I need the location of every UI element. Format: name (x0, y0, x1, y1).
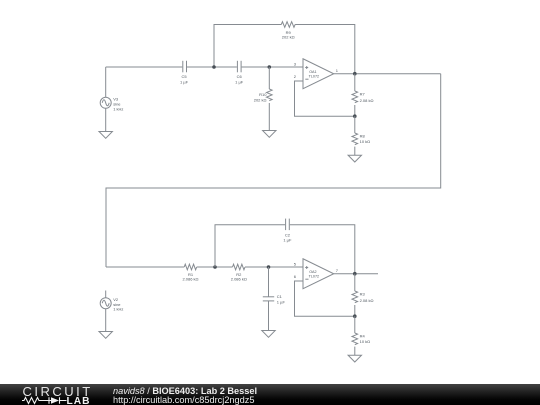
voltage source V2 (100, 298, 111, 309)
wire OA1 inverting input feedback (295, 81, 355, 116)
wire junction to R8 (354, 116, 356, 133)
wire input top from V3 to C5 (106, 66, 183, 68)
wire V3 top stub (105, 67, 107, 97)
label V2 (113, 297, 123, 312)
svg-text:2: 2 (294, 74, 297, 79)
wire node A up (214, 25, 281, 68)
ground below V3 (99, 132, 112, 139)
svg-text:2.08 kΩ: 2.08 kΩ (360, 298, 374, 303)
wire node B down to R10 (268, 67, 270, 89)
svg-text:1 kHz: 1 kHz (113, 307, 123, 312)
wire output node to R7 (354, 74, 356, 91)
label C1 value (277, 294, 286, 304)
label R9 value (282, 30, 295, 40)
wire R10 to ground (268, 103, 270, 131)
label R2 value (231, 272, 247, 281)
CircuitLab logo (0, 384, 100, 405)
wire R8 to ground (354, 147, 356, 156)
svg-text:TL072: TL072 (309, 275, 319, 279)
ground below C1 (262, 331, 275, 338)
ground below R8 (348, 155, 361, 162)
label R1 value (182, 272, 198, 281)
ground below V2 (99, 332, 112, 339)
wire node D down to C1 (268, 267, 270, 297)
label C5 value (180, 74, 189, 84)
wire R1 to R2 (197, 266, 233, 268)
junction node B (268, 65, 272, 69)
label R3 value (360, 292, 374, 303)
junction output node stage1 (353, 72, 357, 76)
svg-text:LAB: LAB (67, 396, 91, 405)
wire V3 to ground (105, 108, 107, 131)
wire R7 to junction (354, 105, 356, 116)
svg-text:1 kHz: 1 kHz (113, 106, 123, 111)
wire C6 to op-amp input (242, 66, 303, 68)
wire stage1 output to stage2 input (106, 74, 441, 267)
wire C5 to C6 (187, 66, 237, 68)
label OA1 name (309, 70, 319, 79)
wire R3 to junction (354, 305, 356, 316)
junction node D (267, 265, 271, 269)
label V3 (113, 97, 123, 112)
wire OA1 output (334, 73, 441, 75)
resistor R4 (352, 333, 358, 345)
svg-text:1 µF: 1 µF (277, 299, 286, 304)
junction feedback node stage2 (353, 314, 357, 318)
wire node C up to C2 (215, 225, 285, 267)
junction output node stage2 (353, 272, 357, 276)
svg-text:2.086 kΩ: 2.086 kΩ (182, 276, 198, 281)
junction feedback node stage1 (353, 114, 357, 118)
footer bar (0, 384, 540, 405)
svg-text:1: 1 (336, 68, 339, 73)
resistor R1 (184, 264, 196, 270)
resistor R2 (233, 264, 245, 270)
svg-text:R8: R8 (360, 134, 366, 139)
wire OA2 output (334, 273, 378, 275)
svg-text:2.08 kΩ: 2.08 kΩ (360, 98, 374, 103)
wire stage2 input to R1 (106, 266, 184, 268)
wire R2 to op-amp 2 input (245, 266, 303, 268)
svg-text:OA1: OA1 (309, 70, 316, 74)
wire V2 to ground (105, 309, 107, 332)
voltage source V3 (100, 97, 111, 108)
svg-text:1 µF: 1 µF (235, 79, 244, 84)
capacitor C6 (237, 61, 241, 73)
svg-text:3: 3 (294, 61, 297, 66)
wire R4 to ground (354, 347, 356, 356)
label OA2 name (309, 270, 319, 279)
ground below R4 (348, 355, 361, 362)
wire C1 to ground (268, 301, 270, 331)
resistor R7 (352, 91, 358, 103)
svg-text:2.086 kΩ: 2.086 kΩ (231, 276, 247, 281)
svg-text:202 kΩ: 202 kΩ (282, 34, 295, 39)
svg-text:7: 7 (336, 268, 339, 273)
op-amp OA2 (303, 259, 334, 289)
wire junction to R4 (354, 316, 356, 333)
svg-text:10 kΩ: 10 kΩ (360, 339, 371, 344)
wire C2 to output node stage2 (290, 225, 355, 274)
capacitor C5 (183, 61, 187, 73)
label C2 value (283, 233, 292, 243)
label R4 value (360, 334, 371, 345)
label R8 value (360, 134, 371, 145)
svg-text:6: 6 (294, 274, 297, 279)
svg-text:202 kΩ: 202 kΩ (254, 97, 267, 102)
svg-text:R3: R3 (360, 292, 366, 297)
label R10 value (254, 92, 268, 102)
svg-text:5: 5 (294, 261, 297, 266)
wire OA2 inverting input feedback (295, 281, 355, 316)
label C6 value (235, 74, 244, 84)
svg-text:1 µF: 1 µF (283, 238, 292, 243)
resistor R9 (281, 22, 295, 28)
svg-text:R4: R4 (360, 334, 366, 339)
svg-text:1 µF: 1 µF (180, 79, 189, 84)
junction node C (213, 265, 217, 269)
svg-text:OA2: OA2 (309, 270, 316, 274)
resistor R3 (352, 291, 358, 303)
resistor R8 (352, 133, 358, 145)
label R7 value (360, 92, 374, 103)
ground below R10 (263, 131, 276, 138)
wire R9 to output node (295, 25, 355, 74)
wire output node to R3 (354, 274, 356, 291)
capacitor C2 (286, 219, 290, 231)
resistor R10 (266, 89, 272, 101)
svg-text:10 kΩ: 10 kΩ (360, 139, 371, 144)
junction node A (212, 65, 216, 69)
svg-text:TL072: TL072 (309, 75, 319, 79)
capacitor C1 (263, 297, 274, 301)
op-amp OA1 (303, 59, 334, 89)
svg-text:R7: R7 (360, 92, 366, 97)
wire V2 top stub (105, 291, 107, 298)
